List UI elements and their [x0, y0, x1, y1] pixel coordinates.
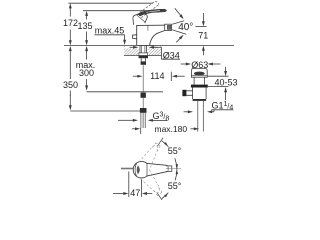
svg-text:55°: 55°	[168, 181, 182, 191]
svg-text:172: 172	[63, 18, 78, 28]
svg-text:135: 135	[77, 21, 92, 31]
svg-text:40-53: 40-53	[214, 78, 237, 88]
svg-text:Ø34: Ø34	[163, 50, 180, 60]
svg-text:114: 114	[150, 71, 164, 81]
svg-text:71: 71	[198, 31, 208, 41]
svg-text:300: 300	[79, 68, 94, 78]
svg-text:350: 350	[63, 80, 78, 90]
svg-text:47: 47	[130, 188, 140, 198]
svg-text:40°: 40°	[178, 22, 193, 33]
svg-text:max.180: max.180	[154, 124, 187, 134]
svg-text:Ø63: Ø63	[191, 60, 208, 70]
svg-text:max.45: max.45	[95, 25, 125, 35]
svg-text:55°: 55°	[168, 146, 182, 156]
